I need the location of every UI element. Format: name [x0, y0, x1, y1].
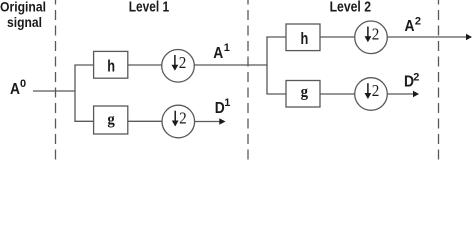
- svg-text:1: 1: [224, 97, 230, 109]
- wire: h1 to downsampler DS1: [128, 64, 162, 66]
- svg-text:h: h: [107, 57, 115, 76]
- label "Original signal": [0, 0, 46, 30]
- svg-text:Level 1: Level 1: [129, 0, 170, 16]
- wire: g2 to downsampler DS3: [320, 93, 355, 95]
- filter box g1: [94, 106, 128, 134]
- wire: DS4 to output D1: [195, 121, 220, 123]
- filter box g2: [286, 81, 320, 108]
- wire: g1 to downsampler DS4: [128, 120, 162, 122]
- filter box h1: [94, 51, 128, 78]
- svg-text:g: g: [301, 84, 308, 101]
- svg-text:h: h: [301, 29, 309, 48]
- svg-text:2: 2: [372, 81, 380, 100]
- wire: DS2 to output A2: [387, 36, 466, 38]
- wire: Level 2 split vertical: [266, 37, 268, 94]
- svg-text:2: 2: [413, 72, 419, 84]
- wire: Level 1 split vertical: [74, 65, 76, 121]
- wire: split to filter g1: [74, 120, 93, 122]
- arrowhead D2 output: [413, 91, 419, 97]
- svg-text:1: 1: [224, 42, 230, 54]
- node A1 label: [213, 42, 230, 62]
- dashed boundary line: input / Level 1: [55, 0, 57, 160]
- wire: A0 input: [33, 90, 75, 92]
- svg-text:Original: Original: [0, 0, 46, 15]
- downsampler DS2 circle: [355, 21, 388, 54]
- svg-text:A: A: [10, 81, 20, 98]
- svg-text:signal: signal: [7, 14, 42, 30]
- downsampler DS1 circle: [162, 50, 195, 83]
- DS3 down-arrow: [365, 83, 372, 99]
- DS4 down-arrow: [172, 111, 179, 127]
- DS2 down-arrow: [365, 27, 372, 43]
- svg-text:D: D: [215, 100, 225, 117]
- node D1 label: [215, 97, 231, 117]
- svg-text:0: 0: [20, 78, 26, 90]
- downsampler DS4 circle: [162, 105, 195, 138]
- wire: h2 to downsampler DS2: [320, 36, 355, 38]
- filter box h2: [286, 24, 320, 51]
- DS1 down-arrow: [172, 55, 179, 71]
- dashed boundary line: Level 1 / Level 2: [247, 0, 249, 160]
- wire: split to filter h2: [266, 36, 286, 38]
- svg-text:2: 2: [179, 53, 187, 72]
- svg-text:g: g: [107, 111, 114, 128]
- wire: split to filter g2: [266, 93, 286, 95]
- node D2 label: [404, 72, 419, 91]
- wire: DS3 to output D2: [387, 93, 413, 95]
- downsampler DS3 circle: [355, 78, 388, 111]
- node A2 label: [405, 16, 422, 35]
- wire: DS1 to Level 2 junction (node A1): [194, 64, 267, 66]
- svg-text:Level 2: Level 2: [330, 0, 371, 16]
- arrowhead A2 output: [466, 34, 472, 40]
- arrowhead D1 output: [219, 118, 225, 124]
- svg-text:2: 2: [179, 109, 187, 128]
- svg-text:2: 2: [372, 25, 380, 44]
- svg-text:A: A: [213, 45, 223, 62]
- dashed boundary line: Level 2 / output: [438, 0, 440, 160]
- svg-text:A: A: [405, 18, 415, 35]
- node A0 label: [10, 78, 26, 98]
- svg-text:2: 2: [415, 16, 421, 28]
- wire: split to filter h1: [74, 64, 93, 66]
